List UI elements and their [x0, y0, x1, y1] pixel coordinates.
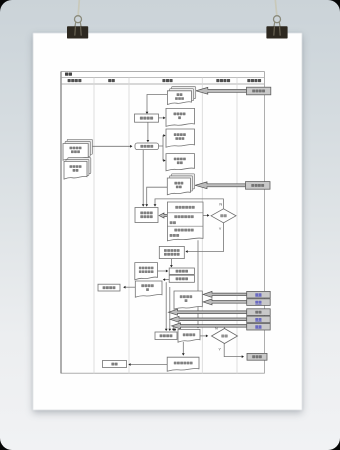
document stack 国家法律法规 [64, 158, 91, 180]
related box 奖惩 [247, 316, 271, 323]
wire 月薪金表 to diamond 2 [200, 335, 208, 338]
document 岗位评估薪酬调整通知 [135, 263, 158, 280]
block arrow 保险 [172, 323, 247, 329]
header 外部信息 [68, 79, 82, 82]
label N (diamond 2) [215, 326, 218, 331]
svg-text:Y: Y [219, 226, 222, 231]
wire 岗位评价 to 岗位规划表 [159, 117, 166, 120]
related box 考绩 [247, 291, 271, 298]
document 岗位规划表 [166, 108, 195, 126]
document 人事通知单 [135, 281, 162, 297]
wire 人事通知单 to 签字确认 [123, 286, 135, 289]
related box 薪酬调查 [246, 182, 271, 190]
wire 薪酬调查 down to 制定方案 [142, 150, 145, 207]
block arrow 福利 [169, 309, 247, 315]
label N (diamond 1) [219, 201, 222, 206]
label Y (diamond 1) [219, 226, 222, 231]
document 岗位津贴系数 [166, 154, 195, 171]
header 公司领导 [216, 79, 230, 82]
process 制定年度薪金调整方案 [135, 208, 158, 223]
wire feeds into 计算工资 a [165, 282, 168, 331]
process 签字确认 [98, 284, 120, 291]
process 实施年度薪金调整方案 [159, 246, 184, 258]
string left [78, 0, 79, 15]
wire 岗位评价 to 薪酬调查 [147, 122, 150, 142]
document 考勤考核表 [174, 291, 202, 309]
wire 薪酬调查 to 地区差异/岗位津贴 [159, 134, 166, 162]
wire 方案 doc to diamond 1 [203, 214, 209, 217]
binder clip left [67, 16, 88, 39]
document 月工资发放表 [167, 357, 199, 371]
process 薪酬调查 (rounded) [135, 143, 159, 150]
wire 薪资评估表 to 制定方案 [145, 187, 167, 206]
wire feeds into 计算工资 c [172, 326, 175, 331]
process 岗位评价 [135, 114, 159, 122]
wire N-return diamond 2 [174, 326, 225, 331]
wire 方案 doc down to 月薪金表 [197, 240, 200, 328]
block arrow 考勤 [203, 299, 247, 305]
process 报税 [103, 361, 127, 368]
process 制作通知 [169, 268, 194, 274]
process 发布文件 [169, 275, 194, 282]
paper sheet [33, 33, 302, 410]
related box 财务部 [247, 353, 267, 360]
document stack 统计局统计数据 [63, 139, 92, 160]
block arrow 奖惩 [170, 316, 247, 322]
block arrow 薪酬调查(R) [195, 182, 246, 189]
related box 工作分析 [247, 87, 271, 95]
related box 福利 [247, 309, 271, 316]
document 地区差异系数表 [166, 129, 195, 147]
document 月薪金表 [178, 329, 200, 342]
table frame [61, 72, 264, 374]
process 计算工资 [155, 332, 177, 340]
decision diamond 审核 2 [212, 329, 238, 344]
related box 保险 [247, 323, 271, 330]
wire N-return to 制定方案 [154, 199, 224, 209]
wire 职位说明书 to 岗位评价 [146, 95, 168, 115]
wire 月工资发放表 to 报税 [128, 363, 167, 366]
document stack 薪资评估表 [167, 174, 194, 195]
header 员工 [108, 79, 115, 82]
wire 发布文件 to 人事通知单 [163, 278, 169, 281]
related box 考勤 [247, 299, 271, 306]
binder clip right [266, 16, 287, 39]
document stack 职位说明书 [167, 87, 195, 105]
block arrow 工作分析 [196, 87, 247, 94]
small block arrow 制定方案 to 调整方案文档 [159, 213, 168, 218]
wire 月薪金表 to 月工资发放表 [182, 342, 185, 356]
wire 调整通知 to 制作通知 [158, 270, 169, 273]
svg-text:N: N [219, 201, 222, 206]
wire diamond 2 Y to 财务部 [224, 344, 244, 359]
block arrow 考绩 [203, 291, 247, 297]
header 关联流程 [247, 79, 261, 82]
title 薪酬 [65, 73, 72, 76]
wire diamond 1 Y to 实施方案 [185, 223, 223, 253]
label Y (diamond 2) [218, 347, 221, 352]
wire feeds into 计算工资 b [168, 287, 171, 331]
string right [275, 0, 277, 15]
header 人事部 [162, 79, 172, 82]
composite document 薪金调整方案 [167, 202, 203, 241]
decision diamond 审批 1 [211, 209, 236, 223]
svg-text:Y: Y [218, 347, 221, 352]
wire 统计数据 to 薪酬调查 [91, 145, 132, 148]
wire 实施方案 to 制作通知 [170, 259, 173, 268]
